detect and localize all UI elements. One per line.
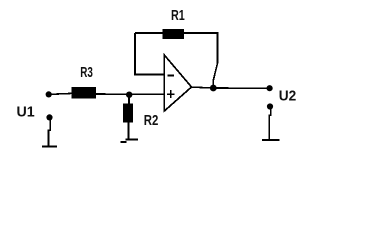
wire R3 to junction to op-amp + input bbox=[96, 93, 165, 95]
svg-text:U1: U1 bbox=[17, 103, 35, 120]
op-amp triangle bbox=[164, 55, 191, 111]
wire op-amp output to node bbox=[192, 86, 214, 89]
wire output node to U2 terminal bbox=[213, 87, 269, 89]
wire input dot to R3 bbox=[49, 93, 72, 94]
wire feedback right leg down to output node bbox=[213, 32, 217, 87]
node output junction bbox=[210, 85, 217, 92]
svg-text:R1: R1 bbox=[171, 7, 185, 24]
ground under U2 bbox=[262, 139, 280, 141]
wire top rail left of R1 bbox=[135, 32, 163, 34]
wire U1 terminal down to ground bbox=[49, 120, 51, 146]
svg-text:U2: U2 bbox=[279, 87, 297, 104]
svg-text:R2: R2 bbox=[144, 112, 159, 129]
resistor R2 bbox=[123, 104, 133, 123]
node U1 ground-side terminal bbox=[46, 114, 52, 120]
op-amp non-inverting input plus sign bbox=[167, 90, 175, 98]
wire op-amp - input to feedback left leg bbox=[135, 33, 165, 75]
wire junction down to R2 bbox=[128, 95, 130, 104]
wire U2 terminal down to ground bbox=[269, 109, 271, 140]
node junction R2/R3 bbox=[126, 92, 132, 98]
wire R2 bottom lead bbox=[128, 123, 130, 140]
node U1 input terminal bbox=[46, 91, 52, 97]
op-amp inverting input minus sign bbox=[168, 74, 174, 76]
resistor R1 bbox=[162, 29, 184, 39]
wire top rail right of R1 bbox=[184, 32, 218, 34]
node U2 ground-side terminal bbox=[267, 103, 273, 109]
svg-text:R3: R3 bbox=[80, 64, 93, 81]
node U2 output terminal bbox=[267, 85, 273, 91]
ground under U1 bbox=[42, 145, 57, 147]
resistor R3 bbox=[72, 87, 97, 98]
ground under R2 bbox=[121, 140, 139, 142]
